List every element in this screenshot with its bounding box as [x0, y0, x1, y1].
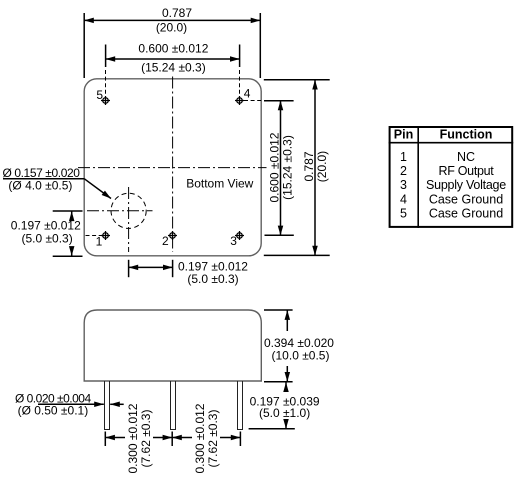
svg-text:0.787: 0.787 — [302, 151, 316, 181]
svg-text:Case Ground: Case Ground — [429, 207, 503, 221]
svg-text:(7.62 ±0.3): (7.62 ±0.3) — [139, 410, 153, 468]
svg-text:0.600 ±0.012: 0.600 ±0.012 — [268, 132, 282, 202]
svg-text:(5.0 ±0.3): (5.0 ±0.3) — [187, 272, 238, 286]
svg-text:(20.0): (20.0) — [156, 21, 187, 35]
svg-text:5: 5 — [96, 88, 103, 102]
svg-text:4: 4 — [400, 192, 407, 206]
svg-text:5: 5 — [400, 207, 407, 221]
svg-text:3: 3 — [400, 178, 407, 192]
svg-text:(15.24 ±0.3): (15.24 ±0.3) — [141, 61, 206, 75]
svg-text:(Ø 0.50 ±0.1): (Ø 0.50 ±0.1) — [18, 403, 89, 417]
svg-text:NC: NC — [457, 150, 475, 164]
svg-text:(Ø 4.0 ±0.5): (Ø 4.0 ±0.5) — [8, 179, 72, 193]
svg-text:Supply Voltage: Supply Voltage — [426, 178, 506, 192]
svg-text:(10.0 ±0.5): (10.0 ±0.5) — [272, 349, 330, 363]
svg-text:(15.24 ±0.3): (15.24 ±0.3) — [281, 135, 295, 200]
svg-text:0.300 ±0.012: 0.300 ±0.012 — [126, 403, 140, 473]
svg-text:Bottom View: Bottom View — [186, 177, 253, 191]
svg-text:(7.62 ±0.3): (7.62 ±0.3) — [206, 410, 220, 468]
svg-text:(5.0 ±1.0): (5.0 ±1.0) — [259, 406, 310, 420]
svg-text:0.197 ±0.012: 0.197 ±0.012 — [11, 219, 81, 233]
svg-text:1: 1 — [96, 234, 103, 248]
svg-text:(5.0 ±0.3): (5.0 ±0.3) — [21, 232, 72, 246]
svg-text:0.787: 0.787 — [162, 6, 192, 20]
svg-text:Function: Function — [440, 128, 493, 142]
svg-text:2: 2 — [162, 234, 169, 248]
svg-text:RF Output: RF Output — [439, 164, 495, 178]
svg-text:0.600 ±0.012: 0.600 ±0.012 — [138, 42, 208, 56]
svg-text:1: 1 — [400, 150, 407, 164]
svg-text:Case Ground: Case Ground — [429, 192, 503, 206]
svg-text:4: 4 — [244, 87, 251, 101]
svg-text:0.300 ±0.012: 0.300 ±0.012 — [193, 403, 207, 473]
svg-text:2: 2 — [400, 164, 407, 178]
svg-text:3: 3 — [230, 234, 237, 248]
svg-text:Pin: Pin — [394, 128, 413, 142]
svg-text:(20.0): (20.0) — [315, 151, 329, 182]
